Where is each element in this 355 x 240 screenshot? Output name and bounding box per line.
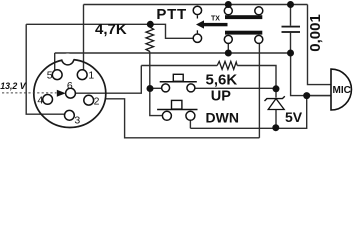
svg-text:DWN: DWN <box>206 109 239 125</box>
wire PTT line <box>26 23 150 25</box>
node 4,7K/UP <box>147 85 154 92</box>
svg-text:TX: TX <box>211 16 220 23</box>
svg-text:3: 3 <box>74 114 80 126</box>
svg-text:4: 4 <box>37 95 43 107</box>
pushbutton UP left contact <box>162 84 170 92</box>
DIN pin 3 <box>65 110 75 120</box>
TX arrow <box>196 20 228 28</box>
wire top-right drop to MIC upper terminal <box>308 5 332 85</box>
relay contact circle lower-right <box>255 35 263 43</box>
node MIC <box>303 92 310 99</box>
DIN pin 2 <box>84 95 94 105</box>
wire zener top lead <box>275 89 277 98</box>
wire bottom rail <box>190 96 306 129</box>
wire left drop to pin3 <box>26 24 64 114</box>
wire cap bottom stub <box>290 33 292 53</box>
DIN notch mask <box>62 54 74 66</box>
node zener bottom <box>272 124 279 131</box>
wire cap bottom to MIC node <box>291 53 331 96</box>
wire 4,7K bottom lead to DWN <box>150 52 163 116</box>
svg-text:MIC: MIC <box>333 85 351 96</box>
svg-text:6: 6 <box>67 80 73 92</box>
node mid rail cap <box>287 50 294 57</box>
svg-text:2: 2 <box>94 95 100 107</box>
svg-text:5,6K: 5,6K <box>206 71 238 88</box>
pushbutton DWN left contact <box>162 111 171 120</box>
node zener top <box>273 85 280 92</box>
wire PTT to switch bottom contact <box>150 24 193 38</box>
wire 5,6K right segment to zener <box>237 66 276 86</box>
DIN pin6 supply arrow <box>57 90 66 97</box>
relay contact circle upper-right <box>255 7 263 15</box>
wire 5,6K left segment <box>141 65 217 67</box>
switch PTT top tick <box>196 15 198 18</box>
node PTT/4,7K <box>147 21 154 28</box>
wire zener bottom lead <box>275 110 277 128</box>
wire UP right terminal to zener node <box>195 87 276 89</box>
node junction dots <box>147 1 311 131</box>
wire 4,7K top lead <box>149 24 151 27</box>
DIN connector outer circle <box>34 60 106 128</box>
svg-text:4,7K: 4,7K <box>95 21 127 38</box>
DIN notch arc <box>62 59 74 64</box>
wire top rail <box>84 4 308 6</box>
wire dot to UP left terminal <box>150 87 162 89</box>
svg-text:0,001: 0,001 <box>307 14 324 52</box>
svg-text:13,2 V: 13,2 V <box>0 81 27 91</box>
resistor 5,6K horizontal zigzag <box>217 61 237 69</box>
pushbutton UP bar <box>160 81 197 83</box>
svg-text:5V: 5V <box>285 109 303 125</box>
relay contact bar upper <box>225 15 262 19</box>
wire relay lower-left stub <box>227 43 229 53</box>
zener diode D1 bar <box>265 96 285 101</box>
microphone MIC <box>331 69 351 110</box>
resistor 4,7K vertical zigzag <box>146 27 154 52</box>
switch PTT bottom tick <box>196 30 198 33</box>
DIN pin 1 <box>77 70 87 80</box>
dashed 13,2V leader line <box>2 92 57 94</box>
pushbutton UP cap box <box>173 74 183 81</box>
DIN pin 5 <box>52 70 62 80</box>
DIN pin 4 <box>43 95 53 105</box>
pushbutton UP right contact <box>187 84 195 92</box>
capacitor C 0,001 plates <box>282 26 301 33</box>
wire pin6 feed <box>76 66 142 94</box>
switch PTT top contact <box>193 6 201 14</box>
relay contact circle upper-left <box>224 7 232 15</box>
svg-text:UP: UP <box>211 89 231 105</box>
wire cap top stub <box>290 5 292 26</box>
node mid rail relay <box>225 50 232 57</box>
svg-text:5: 5 <box>47 69 53 81</box>
relay contact circle lower-left <box>224 35 232 43</box>
zener diode D1 triangle <box>268 99 284 110</box>
wire relay lower-right contact drop <box>258 43 260 138</box>
pushbutton DWN cap box <box>172 100 182 109</box>
wire pin2 to bottom loop <box>105 99 259 138</box>
wire DWN right drop <box>189 120 191 128</box>
relay contact bar lower <box>225 31 262 35</box>
node top rail relay <box>225 1 232 8</box>
pushbutton DWN bar <box>157 109 197 111</box>
svg-text:PTT: PTT <box>156 6 186 23</box>
switch PTT bottom contact <box>193 34 201 42</box>
wire pin5 riser <box>54 53 56 70</box>
wire pin1 riser <box>83 5 85 70</box>
wire MIC lower terminal <box>307 95 331 97</box>
node top rail cap <box>287 1 294 8</box>
pushbutton DWN right contact <box>186 111 195 120</box>
DIN pin 6 <box>66 88 76 98</box>
svg-text:1: 1 <box>88 69 94 81</box>
wire rail mid <box>55 52 291 54</box>
